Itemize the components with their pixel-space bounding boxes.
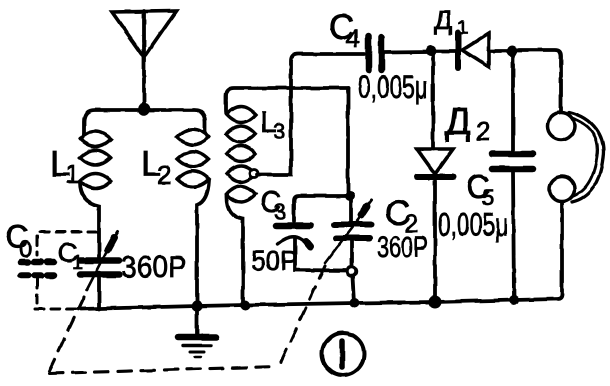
svg-text:2: 2 [157, 160, 171, 190]
svg-text:Д: Д [434, 5, 452, 35]
svg-text:0,005μ: 0,005μ [438, 207, 508, 243]
svg-text:1: 1 [72, 252, 83, 274]
svg-text:0,005μ: 0,005μ [358, 69, 428, 105]
svg-text:4: 4 [346, 25, 360, 53]
svg-text:3: 3 [274, 199, 286, 224]
svg-text:50Р: 50Р [251, 245, 298, 276]
svg-text:2: 2 [476, 116, 490, 146]
svg-text:1: 1 [65, 159, 79, 189]
svg-text:Д: Д [445, 101, 471, 143]
svg-text:1: 1 [457, 17, 468, 39]
svg-text:3: 3 [273, 119, 285, 144]
svg-text:360Р: 360Р [377, 231, 428, 264]
svg-text:0: 0 [19, 236, 32, 263]
svg-text:360Р: 360Р [121, 249, 187, 284]
